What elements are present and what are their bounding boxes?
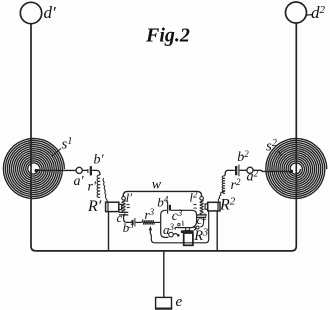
- junction s2 hub: [290, 170, 294, 174]
- contact plate: [175, 221, 196, 230]
- wire r3 to cell box: [154, 221, 161, 223]
- wire b1 to r1: [92, 170, 100, 175]
- wire a1 to b1: [82, 169, 87, 171]
- wire bottom bus: [36, 250, 292, 252]
- svg-text:R′: R′: [87, 198, 102, 215]
- battery b3: [132, 218, 135, 227]
- label d2: [307, 3, 326, 22]
- battery b4: [168, 201, 171, 213]
- wire left antenna to bottom: [31, 24, 36, 251]
- wire R2 to bottom bus: [216, 211, 218, 251]
- wire c2 to R3: [194, 217, 204, 230]
- wire c1 to b3: [124, 215, 132, 223]
- wire b3 to r3: [135, 221, 141, 223]
- svg-text:l′: l′: [126, 190, 133, 205]
- spiral coil s2: [266, 139, 327, 199]
- receiver R2: [205, 202, 220, 211]
- receiver R1: [106, 202, 122, 211]
- capacitor c1: [119, 212, 128, 215]
- wire w: [123, 191, 201, 196]
- wire R1 to bottom bus: [108, 212, 110, 251]
- resistor R3: [181, 228, 194, 245]
- resistor coil r1: [97, 175, 107, 199]
- svg-text:e: e: [176, 294, 183, 310]
- svg-text:r′: r′: [88, 180, 97, 195]
- resistor r3: [142, 220, 154, 225]
- capacitor c2: [197, 215, 206, 218]
- battery b1: [88, 166, 92, 175]
- contact node left of w: [122, 197, 126, 201]
- label s2: [266, 138, 282, 156]
- svg-text:b′: b′: [94, 153, 105, 168]
- junction s1 hub: [35, 169, 38, 172]
- ball d2: [286, 2, 307, 23]
- contact a2: [247, 167, 253, 173]
- wire right antenna to bottom: [292, 23, 297, 251]
- cell enclosure: [161, 210, 197, 237]
- contact node right of w: [200, 197, 204, 201]
- earth plate e: [155, 297, 172, 308]
- wiper arrow of r3: [149, 226, 155, 243]
- spiral coil s1: [3, 139, 64, 199]
- contact a3: [169, 232, 180, 237]
- svg-text:a′: a′: [74, 174, 85, 189]
- inductor l2: [193, 200, 203, 214]
- resistor coil r2: [218, 170, 235, 202]
- wire r1 to R1 box: [107, 199, 109, 202]
- wire spiral s1 center to a1: [35, 169, 76, 171]
- svg-text:d′: d′: [44, 3, 57, 22]
- svg-text:w: w: [152, 178, 162, 193]
- wire a2 to spiral s2: [253, 170, 292, 171]
- contact a1: [76, 167, 82, 173]
- svg-text:Fig.2: Fig.2: [145, 25, 190, 47]
- wire b2 to a2: [239, 169, 247, 171]
- battery b2: [235, 165, 239, 177]
- wire secondary bottom: [155, 211, 209, 243]
- ball d1: [20, 2, 41, 23]
- inductor l1: [122, 200, 130, 212]
- label s1: [52, 136, 73, 157]
- wire earth lead: [163, 251, 165, 298]
